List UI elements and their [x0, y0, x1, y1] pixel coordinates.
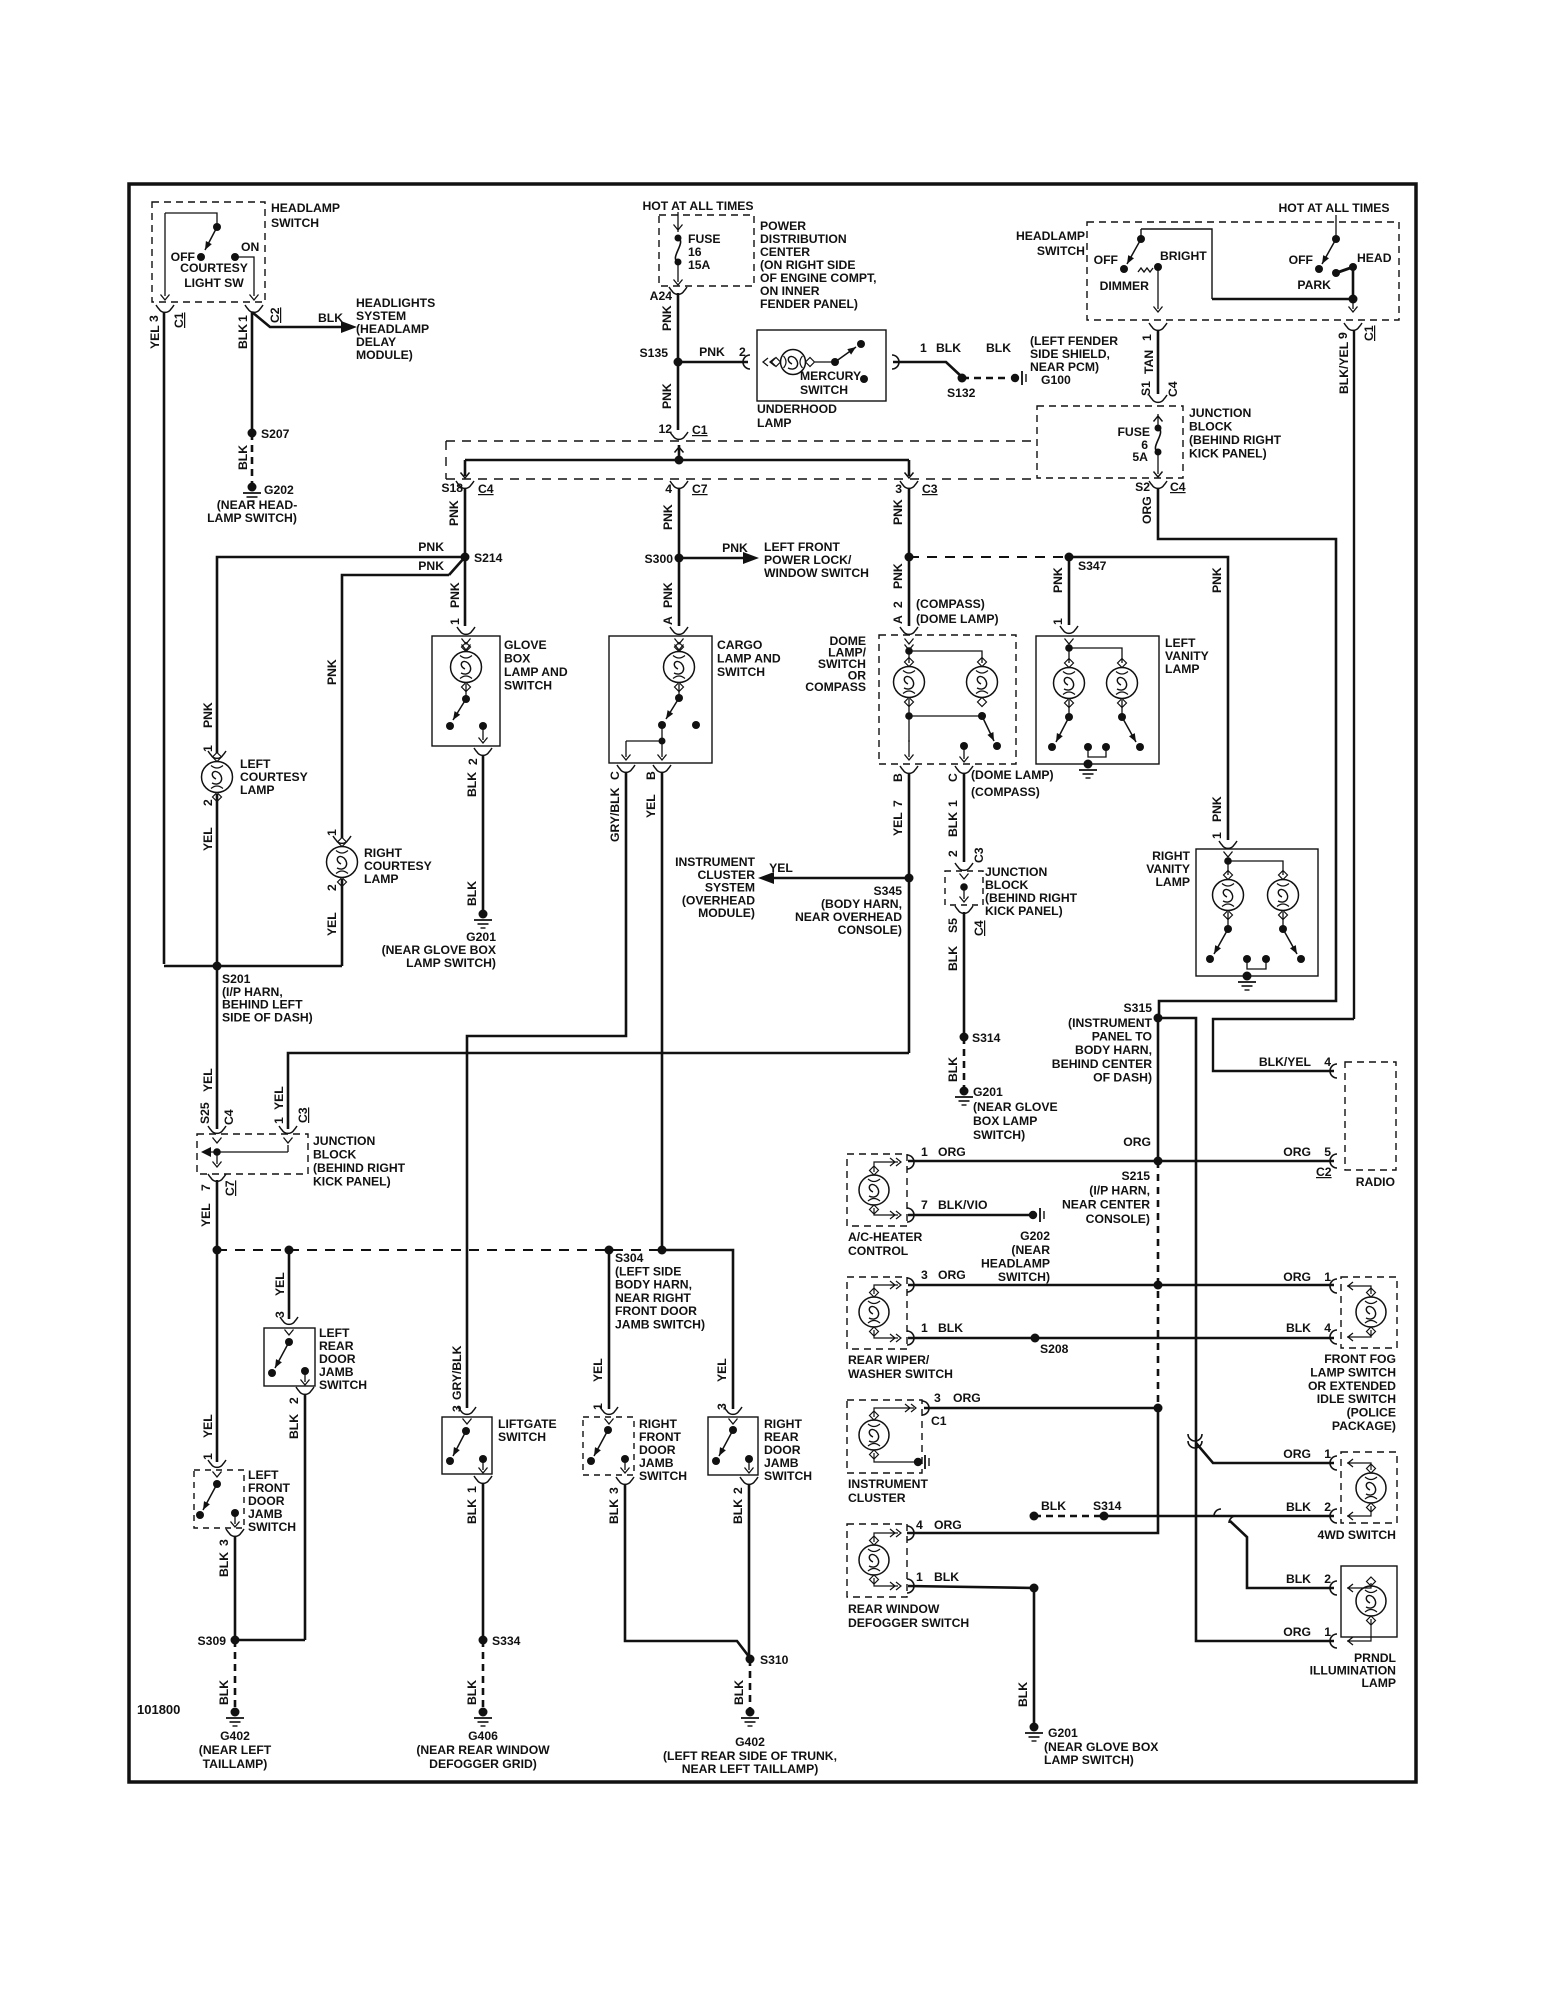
svg-text:C7: C7 — [692, 482, 708, 496]
svg-text:HEADLIGHTS: HEADLIGHTS — [356, 296, 435, 310]
svg-text:JUNCTION: JUNCTION — [985, 865, 1047, 879]
svg-text:LAMP SWITCH: LAMP SWITCH — [1310, 1365, 1396, 1379]
ground G201 near glove box lamp switch (center) — [960, 1087, 969, 1096]
svg-text:LAMP SWITCH): LAMP SWITCH) — [1044, 1753, 1134, 1767]
wire BLK dashed S310 to G402 — [749, 1659, 752, 1708]
svg-text:2: 2 — [1324, 1572, 1331, 1586]
svg-text:4: 4 — [916, 1518, 923, 1532]
svg-text:BODY HARN,: BODY HARN, — [1075, 1043, 1152, 1057]
wire PNK A24 to S135 — [677, 293, 680, 362]
svg-text:COURTESY: COURTESY — [180, 261, 248, 275]
svg-text:LIFTGATE: LIFTGATE — [498, 1417, 557, 1431]
svg-text:IDLE SWITCH: IDLE SWITCH — [1317, 1392, 1396, 1406]
svg-text:TAN: TAN — [1142, 350, 1156, 374]
svg-text:WINDOW SWITCH: WINDOW SWITCH — [764, 566, 869, 580]
splice S310 — [746, 1655, 755, 1664]
svg-text:1: 1 — [448, 618, 462, 625]
right front jamb connector pin 3 — [616, 1477, 634, 1484]
svg-text:C4: C4 — [478, 482, 494, 496]
svg-text:4: 4 — [1324, 1321, 1331, 1335]
svg-text:S309: S309 — [198, 1634, 227, 1648]
svg-text:1: 1 — [920, 341, 927, 355]
hop glyph on BLK wire — [1214, 1509, 1221, 1516]
svg-text:REAR: REAR — [764, 1430, 799, 1444]
svg-text:SWITCH: SWITCH — [271, 216, 319, 230]
svg-text:1: 1 — [1324, 1447, 1331, 1461]
svg-text:UNDERHOOD: UNDERHOOD — [757, 402, 837, 416]
svg-text:S5: S5 — [946, 918, 960, 933]
wire ORG branch to 4WD switch — [1196, 1443, 1334, 1463]
svg-text:C7: C7 — [223, 1180, 237, 1196]
wire PNK S347 to left vanity lamp — [1068, 557, 1071, 625]
svg-text:SIDE SHIELD,: SIDE SHIELD, — [1030, 347, 1110, 361]
wire PNK S135 down to connector 12 C1 — [677, 362, 680, 430]
svg-text:2: 2 — [731, 1487, 745, 1494]
svg-text:1: 1 — [201, 745, 215, 752]
svg-text:C2: C2 — [1316, 1165, 1332, 1179]
svg-text:HOT AT ALL TIMES: HOT AT ALL TIMES — [642, 199, 753, 213]
headlamp switch dashed box — [1087, 222, 1399, 320]
svg-text:3: 3 — [607, 1487, 621, 1494]
right front door jamb switch connector — [600, 1407, 618, 1414]
svg-text:RIGHT: RIGHT — [764, 1417, 802, 1431]
dome lamp connector C1 — [955, 766, 973, 773]
wire BLK glove box lamp to G201 — [482, 755, 485, 911]
wire BLK right rear jamb to S310 — [748, 1484, 751, 1658]
svg-text:LEFT: LEFT — [1165, 636, 1196, 650]
svg-text:BLK: BLK — [236, 324, 250, 349]
instrument cluster dashed box — [847, 1400, 922, 1473]
ground G100 left fender side shield — [1011, 374, 1019, 382]
svg-text:G406: G406 — [468, 1729, 498, 1743]
svg-text:FRONT FOG: FRONT FOG — [1324, 1352, 1396, 1366]
svg-text:S1: S1 — [1139, 381, 1153, 396]
dome lamp/switch or compass dashed box — [879, 635, 1016, 764]
svg-text:PNK: PNK — [661, 504, 675, 530]
svg-text:OF ENGINE COMPT,: OF ENGINE COMPT, — [760, 271, 876, 285]
svg-text:BLK: BLK — [731, 1499, 745, 1524]
svg-text:LEFT: LEFT — [248, 1468, 279, 1482]
svg-text:JUNCTION: JUNCTION — [313, 1134, 375, 1148]
svg-text:1: 1 — [1324, 1270, 1331, 1284]
wire BLK down to S207 — [251, 312, 254, 433]
junction block bus dashed outline left part — [446, 440, 1037, 442]
svg-text:BLK/YEL: BLK/YEL — [1259, 1055, 1312, 1069]
4WD switch dashed box — [1341, 1452, 1397, 1523]
wire YEL left courtesy to S201 — [216, 794, 219, 966]
svg-text:ORG: ORG — [953, 1391, 981, 1405]
underhood lamp box with mercury switch — [757, 330, 886, 401]
svg-text:BLK: BLK — [1286, 1572, 1311, 1586]
svg-text:YEL: YEL — [273, 1272, 287, 1296]
left front jamb connector pin 3 — [226, 1529, 244, 1536]
svg-text:LIGHT SW: LIGHT SW — [184, 276, 244, 290]
svg-text:REAR WINDOW: REAR WINDOW — [848, 1602, 940, 1616]
svg-text:HEADLAMP: HEADLAMP — [271, 201, 340, 215]
svg-text:1: 1 — [325, 829, 339, 836]
junction block (left) connector S25 C4 — [208, 1126, 226, 1133]
splice S215 — [1154, 1157, 1163, 1166]
headlamp switch (courtesy light sw) box — [152, 202, 265, 302]
svg-text:ORG: ORG — [1283, 1625, 1311, 1639]
svg-text:BLK: BLK — [318, 311, 343, 325]
svg-text:OFF: OFF — [1289, 253, 1313, 267]
svg-text:PNK: PNK — [661, 582, 675, 608]
junction block (fuse 6) dashed box — [1037, 406, 1183, 478]
right vanity lamp connector — [1219, 841, 1237, 848]
cargo lamp connector C — [617, 765, 635, 772]
svg-text:2: 2 — [287, 1397, 301, 1404]
svg-text:S314: S314 — [972, 1031, 1001, 1045]
wire BLK defogger to G201 — [908, 1586, 1034, 1724]
wire PNK S135 to mercury switch — [678, 361, 748, 364]
splice S214 — [461, 553, 470, 562]
svg-text:BLK: BLK — [607, 1499, 621, 1524]
svg-text:C4: C4 — [1166, 381, 1180, 397]
splice at dome drop for S347 branch — [905, 553, 914, 562]
svg-text:YEL: YEL — [201, 1414, 215, 1438]
wire YEL bus to left rear door jamb switch — [288, 1250, 291, 1319]
svg-text:WASHER SWITCH: WASHER SWITCH — [848, 1367, 953, 1381]
right rear door jamb switch box — [708, 1417, 758, 1475]
svg-text:JAMB: JAMB — [248, 1507, 283, 1521]
svg-text:(COMPASS): (COMPASS) — [916, 597, 985, 611]
wire PNK S347 to right vanity lamp — [1069, 557, 1228, 840]
svg-text:JAMB: JAMB — [639, 1456, 674, 1470]
ground G201 near glove box lamp switch — [479, 910, 488, 919]
svg-text:(BODY HARN,: (BODY HARN, — [821, 897, 902, 911]
glove box lamp connector — [457, 627, 475, 634]
svg-text:YEL: YEL — [272, 1086, 286, 1110]
svg-text:C4: C4 — [1170, 480, 1186, 494]
bus internal wire — [675, 447, 684, 453]
wire ORG rear wiper to front fog lamp switch — [908, 1284, 1334, 1287]
svg-text:(HEADLAMP: (HEADLAMP — [356, 322, 429, 336]
svg-text:S347: S347 — [1078, 559, 1107, 573]
svg-text:DOOR: DOOR — [248, 1494, 285, 1508]
wire PNK dashed to S347 — [909, 556, 1069, 558]
svg-text:SWITCH: SWITCH — [504, 679, 552, 693]
svg-text:BODY HARN,: BODY HARN, — [615, 1278, 692, 1292]
svg-text:BEHIND CENTER: BEHIND CENTER — [1052, 1057, 1152, 1071]
svg-text:B: B — [644, 771, 658, 780]
wire BLK left rear jamb down to S309 line — [304, 1394, 307, 1640]
svg-text:7: 7 — [891, 800, 905, 807]
svg-text:3: 3 — [715, 1403, 729, 1410]
wire ORG a/c-heater to S215 and radio — [908, 1160, 1334, 1163]
right front door jamb switch dashed box — [583, 1417, 634, 1475]
svg-text:FUSE: FUSE — [688, 232, 721, 246]
svg-text:7: 7 — [199, 1184, 213, 1191]
svg-text:1: 1 — [272, 1117, 286, 1124]
svg-text:PNK: PNK — [660, 305, 674, 331]
svg-text:3: 3 — [147, 315, 161, 322]
svg-text:BLK: BLK — [1016, 1682, 1030, 1707]
svg-text:C1: C1 — [172, 312, 186, 328]
svg-text:LAMP AND: LAMP AND — [717, 652, 781, 666]
svg-text:BOX LAMP: BOX LAMP — [973, 1114, 1037, 1128]
svg-text:1: 1 — [591, 1403, 605, 1410]
svg-text:C3: C3 — [296, 1107, 310, 1123]
splice S347 — [1065, 553, 1074, 562]
svg-text:HOT AT ALL TIMES: HOT AT ALL TIMES — [1278, 201, 1389, 215]
svg-text:OF DASH): OF DASH) — [1093, 1070, 1152, 1084]
connector C1 pin 3 — [156, 305, 174, 312]
fuse 16 15A — [675, 235, 682, 242]
svg-text:15A: 15A — [688, 258, 711, 272]
svg-text:B: B — [891, 773, 905, 782]
svg-text:16: 16 — [688, 245, 702, 259]
ground G406 near rear window defogger grid — [479, 1708, 488, 1717]
svg-text:G402: G402 — [735, 1735, 765, 1749]
svg-text:SIDE OF DASH): SIDE OF DASH) — [222, 1010, 313, 1024]
svg-text:A24: A24 — [650, 289, 673, 303]
svg-text:SWITCH: SWITCH — [764, 1469, 812, 1483]
wire BLK mercury switch to S132 — [892, 355, 899, 369]
svg-text:3: 3 — [273, 1311, 287, 1318]
svg-text:5: 5 — [1324, 1145, 1331, 1159]
connector 9 C1 — [1344, 323, 1362, 330]
svg-text:C1: C1 — [1362, 325, 1376, 341]
svg-text:HEADLAMP: HEADLAMP — [1016, 229, 1085, 243]
radio dashed box — [1345, 1062, 1396, 1170]
dome lamp connector A2 — [900, 627, 918, 634]
wire BLK dashed S132 to G100 — [962, 377, 1010, 380]
svg-text:(BEHIND RIGHT: (BEHIND RIGHT — [313, 1161, 406, 1175]
svg-text:YEL: YEL — [148, 325, 162, 349]
svg-text:S300: S300 — [645, 552, 674, 566]
svg-text:S207: S207 — [261, 427, 290, 441]
svg-text:YEL: YEL — [199, 1203, 213, 1227]
svg-text:YEL: YEL — [769, 861, 793, 875]
svg-text:YEL: YEL — [201, 827, 215, 851]
svg-text:POWER: POWER — [760, 219, 806, 233]
wire YEL from S345 loop to junction block C3 — [288, 1053, 909, 1129]
svg-text:PNK: PNK — [1051, 567, 1065, 593]
svg-text:BLK: BLK — [946, 812, 960, 837]
wire BLK dashed S309 to G402 — [234, 1640, 237, 1708]
splice S208 — [1031, 1334, 1040, 1343]
ground G201 near glove box lamp switch (bottom right) — [1030, 1723, 1039, 1732]
svg-text:S18: S18 — [441, 481, 463, 495]
wire BLK junction block to S314 — [963, 912, 966, 1037]
break glyph on ORG main — [1188, 1434, 1202, 1448]
wire YEL bus to right front door jamb switch — [608, 1250, 611, 1409]
svg-text:BLOCK: BLOCK — [985, 878, 1029, 892]
svg-text:LAMP: LAMP — [1361, 1676, 1396, 1690]
wire PNK S214 down to glove box lamp — [464, 557, 467, 626]
svg-text:YEL: YEL — [591, 1358, 605, 1382]
svg-text:YEL: YEL — [644, 794, 658, 818]
rear wiper/washer switch dashed box — [847, 1277, 907, 1349]
svg-text:(LEFT FENDER: (LEFT FENDER — [1030, 334, 1118, 348]
svg-text:1: 1 — [1210, 832, 1224, 839]
svg-text:(NEAR LEFT: (NEAR LEFT — [199, 1743, 272, 1757]
svg-text:PNK: PNK — [201, 702, 215, 728]
junction block connector 7 C7 — [208, 1174, 226, 1181]
svg-text:DOOR: DOOR — [319, 1352, 356, 1366]
svg-text:FRONT: FRONT — [248, 1481, 291, 1495]
ground G202 near headlamp switch — [248, 483, 257, 492]
wire ORG from S2 C4 looping right and down to S315 — [1158, 488, 1336, 1018]
svg-text:ORG: ORG — [1283, 1145, 1311, 1159]
svg-text:FRONT: FRONT — [639, 1430, 682, 1444]
svg-text:1: 1 — [1324, 1625, 1331, 1639]
svg-text:CONTROL: CONTROL — [848, 1244, 909, 1258]
wire dashed S215 harness line — [1157, 1161, 1160, 1409]
svg-text:S215: S215 — [1122, 1169, 1151, 1183]
svg-text:BLK/VIO: BLK/VIO — [938, 1198, 987, 1212]
svg-text:PNK: PNK — [660, 383, 674, 409]
cargo lamp and switch box — [609, 636, 712, 763]
svg-text:1: 1 — [916, 1570, 923, 1584]
wire PNK S300 down to cargo lamp — [678, 558, 681, 626]
svg-text:(I/P HARN,: (I/P HARN, — [1089, 1183, 1150, 1197]
splice S135 — [674, 358, 683, 367]
svg-text:CONSOLE): CONSOLE) — [838, 923, 902, 937]
svg-text:BLK: BLK — [986, 341, 1011, 355]
liftgate connector pin 1 — [474, 1476, 492, 1483]
svg-text:PNK: PNK — [1210, 567, 1224, 593]
svg-text:(NEAR GLOVE BOX: (NEAR GLOVE BOX — [1044, 1740, 1159, 1754]
left rear door jamb switch connector — [280, 1317, 298, 1324]
svg-text:NEAR CENTER: NEAR CENTER — [1062, 1198, 1150, 1212]
svg-text:LAMP SWITCH): LAMP SWITCH) — [207, 511, 297, 525]
svg-text:S315: S315 — [1124, 1001, 1153, 1015]
svg-text:BLK: BLK — [287, 1414, 301, 1439]
svg-text:BLK: BLK — [465, 1499, 479, 1524]
svg-text:3: 3 — [921, 1268, 928, 1282]
svg-text:SWITCH: SWITCH — [639, 1469, 687, 1483]
svg-text:LAMP SWITCH): LAMP SWITCH) — [406, 956, 496, 970]
connector 1 (TAN) below headlamp switch — [1149, 323, 1167, 330]
svg-text:LAMP: LAMP — [240, 783, 275, 797]
svg-text:DOOR: DOOR — [639, 1443, 676, 1457]
svg-text:G201: G201 — [466, 930, 496, 944]
svg-text:CLUSTER: CLUSTER — [848, 1491, 906, 1505]
wire YEL from C1 down left side — [163, 312, 166, 964]
svg-text:BLK: BLK — [946, 946, 960, 971]
wire BLK liftgate to S334 — [482, 1483, 485, 1640]
svg-text:JAMB SWITCH): JAMB SWITCH) — [615, 1318, 705, 1332]
svg-text:BLK: BLK — [465, 772, 479, 797]
svg-text:KICK PANEL): KICK PANEL) — [313, 1175, 391, 1189]
splice S207 — [248, 429, 257, 438]
YEL arrow to instrument cluster system — [762, 877, 909, 880]
svg-text:A/C-HEATER: A/C-HEATER — [848, 1230, 922, 1244]
svg-text:VANITY: VANITY — [1165, 649, 1209, 663]
svg-text:S345: S345 — [874, 884, 903, 898]
svg-text:YEL: YEL — [715, 1358, 729, 1382]
svg-text:(LEFT REAR SIDE OF TRUNK,: (LEFT REAR SIDE OF TRUNK, — [663, 1749, 837, 1763]
svg-text:SWITCH: SWITCH — [319, 1378, 367, 1392]
svg-text:1: 1 — [921, 1145, 928, 1159]
svg-text:NEAR LEFT TAILLAMP): NEAR LEFT TAILLAMP) — [682, 1762, 819, 1776]
headlamp on-off switch internals — [1335, 215, 1337, 239]
svg-text:COMPASS: COMPASS — [805, 680, 866, 694]
svg-text:BLK: BLK — [938, 1321, 963, 1335]
svg-text:GLOVE: GLOVE — [504, 638, 547, 652]
junction block internal wire with left arrow — [287, 1145, 289, 1152]
svg-text:C1: C1 — [931, 1414, 947, 1428]
border frame — [129, 184, 1416, 1782]
glove box lamp and switch box — [432, 636, 500, 746]
wire BLK dashed S314 to G201 — [963, 1037, 966, 1088]
svg-text:RIGHT: RIGHT — [1152, 849, 1190, 863]
svg-text:SYSTEM: SYSTEM — [356, 309, 406, 323]
svg-text:(ON RIGHT SIDE: (ON RIGHT SIDE — [760, 258, 855, 272]
svg-text:ON INNER: ON INNER — [760, 284, 820, 298]
svg-text:DEFOGGER GRID): DEFOGGER GRID) — [429, 1757, 537, 1771]
svg-text:FRONT DOOR: FRONT DOOR — [615, 1304, 697, 1318]
svg-text:9: 9 — [1336, 332, 1350, 339]
ground G202 near headlamp switch (right) — [1029, 1211, 1037, 1219]
svg-text:S208: S208 — [1040, 1342, 1069, 1356]
svg-text:G202: G202 — [1020, 1229, 1050, 1243]
svg-text:ORG: ORG — [1123, 1135, 1151, 1149]
wire BLK right front jamb to S310 — [625, 1484, 750, 1658]
svg-text:(LEFT SIDE: (LEFT SIDE — [615, 1264, 681, 1278]
svg-text:C4: C4 — [222, 1109, 236, 1125]
svg-text:1: 1 — [921, 1321, 928, 1335]
svg-text:BLK: BLK — [1041, 1499, 1066, 1513]
svg-text:BLK: BLK — [217, 1680, 231, 1705]
dome lamp internals — [905, 647, 913, 655]
svg-text:LEFT: LEFT — [319, 1326, 350, 1340]
splice S132 — [958, 374, 967, 383]
svg-text:NEAR OVERHEAD: NEAR OVERHEAD — [795, 910, 902, 924]
svg-text:2: 2 — [325, 884, 339, 891]
svg-text:BLK: BLK — [465, 1680, 479, 1705]
wire GRY/BLK cargo to liftgate switch — [467, 772, 626, 1408]
svg-text:PNK: PNK — [418, 559, 444, 573]
svg-text:SWITCH: SWITCH — [800, 383, 848, 397]
svg-text:2: 2 — [1324, 1500, 1331, 1514]
svg-text:S214: S214 — [474, 551, 503, 565]
svg-text:KICK PANEL): KICK PANEL) — [1189, 447, 1267, 461]
wire PNK 4 C7 to S300 — [678, 488, 681, 558]
wire PNK down to dome lamp connector — [908, 557, 911, 626]
svg-text:1: 1 — [465, 1486, 479, 1493]
svg-text:G201: G201 — [973, 1085, 1003, 1099]
svg-text:JUNCTION: JUNCTION — [1189, 406, 1251, 420]
svg-text:S132: S132 — [947, 386, 976, 400]
svg-text:A: A — [891, 615, 905, 624]
splice S300 — [675, 554, 684, 563]
svg-text:(COMPASS): (COMPASS) — [971, 785, 1040, 799]
svg-text:2: 2 — [946, 850, 960, 857]
svg-text:PNK: PNK — [1210, 796, 1224, 822]
splice S314 bottom — [1100, 1512, 1109, 1521]
svg-text:DISTRIBUTION: DISTRIBUTION — [760, 232, 847, 246]
splice S201 junction line — [164, 965, 342, 968]
svg-text:VANITY: VANITY — [1146, 862, 1190, 876]
wire ORG S315 branch right and down to PRNDL — [1158, 1018, 1334, 1641]
svg-text:DOOR: DOOR — [764, 1443, 801, 1457]
svg-text:LEFT FRONT: LEFT FRONT — [764, 540, 840, 554]
left vanity lamp connector — [1060, 626, 1078, 633]
svg-text:BLK: BLK — [1286, 1321, 1311, 1335]
svg-text:BLK: BLK — [217, 1552, 231, 1577]
svg-text:101800: 101800 — [137, 1702, 180, 1717]
svg-text:MODULE): MODULE) — [356, 348, 413, 362]
svg-text:BLK: BLK — [732, 1680, 746, 1705]
svg-text:PNK: PNK — [418, 540, 444, 554]
wire BLK rear wiper to S208 and front fog — [908, 1337, 1334, 1340]
svg-text:C4: C4 — [972, 920, 986, 936]
svg-text:ORG: ORG — [938, 1268, 966, 1282]
wire YEL dome B to S345 — [908, 773, 911, 1053]
